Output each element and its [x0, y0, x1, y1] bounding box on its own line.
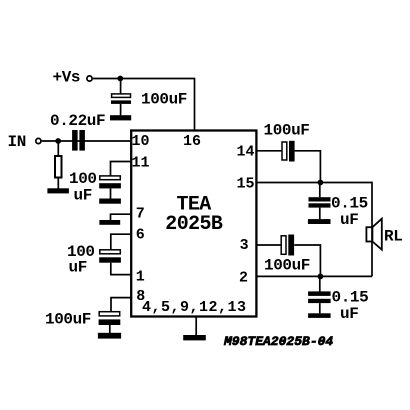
svg-text:6: 6	[136, 226, 145, 243]
svg-text:0.15: 0.15	[332, 289, 369, 307]
svg-text:uF: uF	[340, 305, 358, 323]
svg-text:100uF: 100uF	[264, 122, 310, 140]
capacitor C5 100uF (pin 8)	[99, 312, 121, 333]
wire pin 15 line	[256, 182, 372, 184]
terminal +Vs	[87, 76, 92, 81]
svg-text:uF: uF	[74, 186, 92, 204]
capacitor C1 100uF (supply decoupling)	[111, 79, 131, 116]
svg-text:2: 2	[239, 269, 248, 286]
svg-text:100uF: 100uF	[141, 91, 187, 109]
svg-text:16: 16	[183, 133, 201, 150]
capacitor C9 0.15uF	[308, 276, 331, 313]
wire pin 1 branch	[110, 274, 131, 276]
wire pin 3 to C8	[256, 244, 281, 246]
capacitor C6 100uF (output coupling, pin 14)	[282, 141, 295, 162]
junction on +Vs rail	[117, 76, 123, 82]
speaker RL	[366, 219, 381, 250]
wire right rail (speaker)	[371, 182, 373, 277]
capacitor C7 0.15uF	[309, 183, 331, 220]
svg-text:2025B: 2025B	[165, 213, 223, 236]
wire to pin 16	[194, 78, 196, 131]
ground under IC	[183, 335, 206, 340]
ground under C9	[308, 313, 331, 318]
svg-text:11: 11	[132, 154, 150, 171]
svg-text:100uF: 100uF	[264, 256, 310, 274]
svg-text:15: 15	[237, 176, 255, 193]
wire +Vs rail	[93, 78, 195, 80]
resistor R1	[55, 141, 62, 189]
svg-text:14: 14	[237, 143, 255, 160]
capacitor C2 0.22uF (input coupling)	[72, 130, 85, 151]
wire pin 14 to C6	[256, 150, 281, 152]
svg-text:uF: uF	[340, 211, 358, 229]
ground under C7	[308, 219, 331, 224]
svg-text:7: 7	[136, 206, 145, 223]
wire pin 8 branch	[111, 298, 131, 312]
ground under C1	[110, 115, 131, 120]
junction on input line	[55, 138, 61, 144]
svg-text:4,5,9,12,13: 4,5,9,12,13	[142, 299, 247, 316]
wire C8 to junction and down	[294, 245, 320, 276]
svg-text:M98TEA2025B-04: M98TEA2025B-04	[223, 334, 333, 349]
ground under R1	[47, 188, 69, 193]
ground under C3	[99, 199, 121, 204]
svg-text:100uF: 100uF	[45, 311, 91, 329]
svg-text:IN: IN	[8, 133, 26, 151]
wire C6 to junction and down	[295, 151, 321, 183]
capacitor C8 100uF (output coupling, pin 3)	[281, 235, 294, 256]
junction pin 2 line	[318, 274, 324, 280]
svg-text:100: 100	[69, 170, 97, 188]
svg-text:uF: uF	[69, 259, 87, 277]
capacitor C3 100uF (pin 11)	[99, 176, 121, 199]
IC U1 TEA2025B	[131, 131, 256, 317]
junction pin 15 line	[318, 180, 324, 186]
svg-text:+Vs: +Vs	[53, 69, 81, 87]
wire pin 6 branch	[111, 234, 131, 249]
svg-text:3: 3	[240, 237, 249, 254]
wire input line	[42, 140, 131, 142]
svg-text:1: 1	[136, 268, 145, 285]
svg-text:RL: RL	[384, 228, 402, 246]
capacitor C4 100uF (pins 6-1)	[99, 250, 121, 275]
svg-text:10: 10	[132, 133, 150, 150]
ground under C5	[98, 333, 121, 339]
wire pin 2 line	[256, 275, 372, 277]
ground at pin 7	[99, 220, 120, 225]
terminal IN	[36, 138, 41, 143]
wire pin 11 branch	[111, 162, 132, 176]
svg-text:0.22uF: 0.22uF	[50, 112, 105, 130]
wire IC ground stub	[195, 316, 197, 335]
wire pin 7 branch	[111, 214, 132, 220]
svg-text:0.15: 0.15	[331, 194, 368, 212]
